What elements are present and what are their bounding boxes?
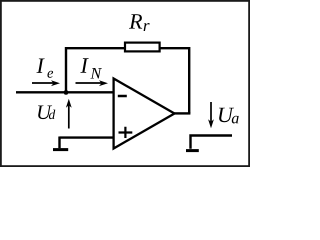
arrow Ua voltage (down) [210, 102, 212, 122]
arrow Ud voltage (up) [68, 105, 70, 129]
resistor Rr [125, 43, 160, 52]
label Rr [129, 14, 142, 28]
ground left (stem + bar) [58, 137, 60, 149]
arrow IN current [76, 82, 103, 84]
wire output rail (right bottom horizontal + stem) [191, 136, 233, 149]
label Ua [219, 108, 234, 123]
arrow Ie current [32, 82, 54, 84]
label Ud [38, 105, 52, 119]
border frame [1, 1, 249, 166]
wire noninverting input (bottom left horizontal) [60, 136, 115, 138]
label IN [80, 58, 88, 72]
op-amp inverting input minus sign [118, 95, 127, 98]
wire output [175, 112, 191, 114]
wire input (left horizontal) [16, 91, 115, 93]
node junction on input wire [64, 90, 69, 95]
op-amp noninverting input plus sign [119, 127, 133, 138]
label Ie [36, 58, 44, 72]
wire feedback right (resistor to right riser down to output) [160, 48, 190, 113]
wire feedback left (vertical riser + top segment to resistor) [66, 48, 125, 93]
ground right bar [186, 149, 199, 152]
op-amp U1 triangle [114, 79, 175, 149]
